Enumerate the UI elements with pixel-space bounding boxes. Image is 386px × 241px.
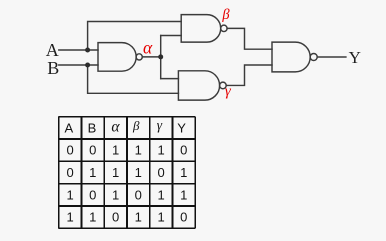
svg-text:0: 0 xyxy=(180,210,187,225)
svg-text:0: 0 xyxy=(89,143,96,158)
svg-text:1: 1 xyxy=(180,165,187,180)
svg-text:1: 1 xyxy=(157,187,164,202)
svg-text:1: 1 xyxy=(157,143,164,158)
svg-text:0: 0 xyxy=(157,165,164,180)
svg-text:1: 1 xyxy=(66,187,73,202)
svg-text:B: B xyxy=(47,58,59,78)
svg-text:β: β xyxy=(132,118,140,133)
svg-text:1: 1 xyxy=(135,143,142,158)
svg-text:0: 0 xyxy=(135,187,142,202)
svg-text:1: 1 xyxy=(135,210,142,225)
svg-text:0: 0 xyxy=(66,143,73,158)
svg-text:0: 0 xyxy=(180,143,187,158)
svg-text:0: 0 xyxy=(89,187,96,202)
svg-text:β: β xyxy=(221,7,230,23)
svg-text:1: 1 xyxy=(180,187,187,202)
svg-text:1: 1 xyxy=(89,210,96,225)
svg-text:1: 1 xyxy=(112,143,119,158)
svg-text:A: A xyxy=(64,120,73,135)
svg-text:1: 1 xyxy=(89,165,96,180)
svg-text:Y: Y xyxy=(177,120,186,135)
svg-text:α: α xyxy=(143,38,153,58)
svg-text:1: 1 xyxy=(135,165,142,180)
svg-text:A: A xyxy=(46,40,59,60)
svg-text:1: 1 xyxy=(112,165,119,180)
svg-text:γ: γ xyxy=(157,118,163,133)
svg-text:1: 1 xyxy=(112,187,119,202)
svg-text:0: 0 xyxy=(112,210,119,225)
svg-text:1: 1 xyxy=(157,210,164,225)
svg-text:α: α xyxy=(111,119,120,136)
svg-text:B: B xyxy=(88,120,97,135)
svg-text:0: 0 xyxy=(66,165,73,180)
svg-text:Y: Y xyxy=(349,48,361,67)
svg-text:1: 1 xyxy=(66,210,73,225)
